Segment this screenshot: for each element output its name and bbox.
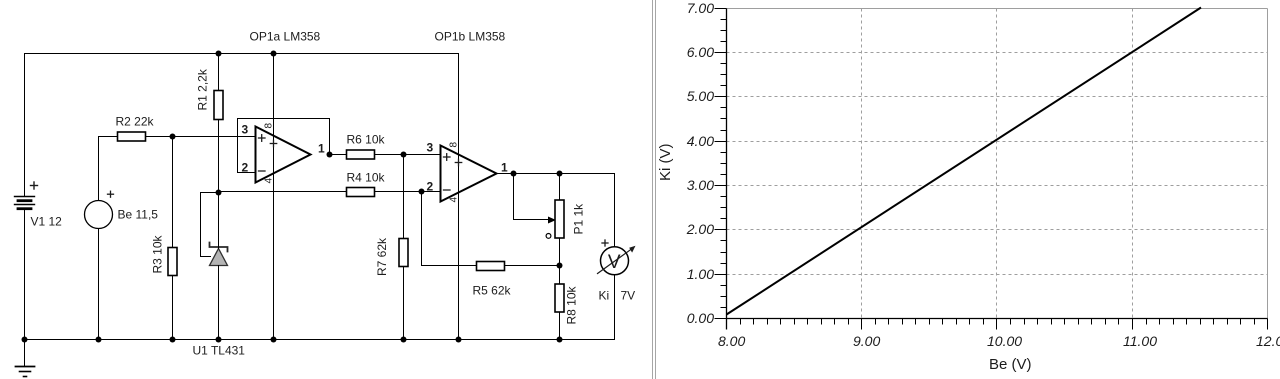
TL431 cathode bar xyxy=(210,243,228,252)
svg-text:3: 3 xyxy=(242,123,249,137)
node bottom rail / R7 xyxy=(401,337,407,343)
svg-text:R7 62k: R7 62k xyxy=(375,237,389,276)
wire wiper branch xyxy=(514,174,550,220)
wire pin2 node down xyxy=(421,192,423,266)
wire voltmeter bottom lead xyxy=(614,275,616,340)
node R4/R5/pin2 xyxy=(419,189,425,195)
svg-text:3.00: 3.00 xyxy=(687,177,714,193)
svg-text:8.00: 8.00 xyxy=(718,333,745,349)
wire TL431 node to R4 xyxy=(219,191,347,193)
voltmeter needle arrow xyxy=(598,246,636,274)
svg-text:7V: 7V xyxy=(621,289,636,303)
wire TL431 ref loop xyxy=(201,193,219,257)
wire bottom rail (ground net) xyxy=(25,339,615,341)
svg-text:0.00: 0.00 xyxy=(687,310,714,326)
svg-text:OP1b LM358: OP1b LM358 xyxy=(435,30,506,44)
wire OP1b output row xyxy=(497,173,615,175)
x tick labels xyxy=(718,333,1280,349)
wire Be column lower xyxy=(98,229,100,340)
node bottom rail / battery xyxy=(22,337,28,343)
wire R3 column lower xyxy=(172,276,174,340)
wire TL431 anode xyxy=(218,266,220,340)
svg-text:P1 1k: P1 1k xyxy=(572,203,586,235)
ground symbol xyxy=(16,340,35,377)
wire R1 bottom lead to TL431 node xyxy=(218,120,220,193)
svg-text:R2 22k: R2 22k xyxy=(116,115,155,129)
P1 terminal circle xyxy=(546,234,551,239)
wire P1 top lead xyxy=(559,174,561,201)
chart right border xyxy=(1267,9,1269,319)
P1 wiper arrowhead xyxy=(548,217,556,224)
OP1b minus input mark xyxy=(444,189,451,191)
wire voltmeter top lead xyxy=(614,174,616,248)
svg-text:3: 3 xyxy=(427,141,434,155)
node bottom rail / TL431 xyxy=(216,337,222,343)
node bottom rail / R8 xyxy=(557,337,563,343)
op-amp OP1b triangle xyxy=(441,146,497,202)
svg-text:2: 2 xyxy=(427,180,434,194)
wire node to OP1b pin2 xyxy=(422,191,441,193)
op-amp OP1a triangle xyxy=(256,127,311,183)
x axis line xyxy=(727,318,1268,320)
resistor R8 10k xyxy=(555,284,564,312)
node bottom rail / OP1b supply xyxy=(456,337,462,343)
svg-text:8: 8 xyxy=(449,142,460,148)
voltage source Be 11,5 xyxy=(85,201,113,229)
svg-text:U1 TL431: U1 TL431 xyxy=(193,344,246,358)
svg-text:V: V xyxy=(608,252,621,273)
svg-text:R4 10k: R4 10k xyxy=(347,171,386,185)
potentiometer P1 1k xyxy=(555,200,564,238)
horizontal gridlines xyxy=(727,53,1268,275)
svg-text:R1 2,2k: R1 2,2k xyxy=(196,68,210,110)
OP1a minus input mark xyxy=(259,170,266,172)
TL431 body U1 (triangle) xyxy=(210,249,228,266)
svg-text:12.00: 12.00 xyxy=(1256,333,1280,349)
battery plus mark xyxy=(31,182,38,189)
OP1b supply plus mark xyxy=(455,159,461,165)
wire OP1a supply column xyxy=(273,54,275,340)
svg-text:1.00: 1.00 xyxy=(687,266,714,282)
Be plus mark xyxy=(108,191,114,197)
svg-text:R8 10k: R8 10k xyxy=(565,285,579,324)
wire to R5 xyxy=(422,265,477,267)
svg-text:Be 11,5: Be 11,5 xyxy=(118,208,159,222)
svg-text:8: 8 xyxy=(264,123,275,129)
wire R4 to node xyxy=(375,191,422,193)
svg-text:6.00: 6.00 xyxy=(687,44,714,60)
svg-text:V1 12: V1 12 xyxy=(31,215,63,229)
node top rail / OP1a supply xyxy=(271,51,277,57)
resistor R3 10k xyxy=(168,248,177,276)
wire battery column upper xyxy=(24,54,26,197)
wire R3 column upper xyxy=(172,137,174,248)
node R6/R7/pin3 xyxy=(401,152,407,158)
resistor R5 62k xyxy=(477,262,505,271)
svg-text:10.00: 10.00 xyxy=(987,333,1022,349)
x axis ticks xyxy=(727,319,1268,330)
svg-text:Ki (V): Ki (V) xyxy=(657,143,674,181)
node bottom rail / Be xyxy=(96,337,102,343)
wire R8 top lead xyxy=(559,266,561,285)
svg-text:Be (V): Be (V) xyxy=(989,356,1032,373)
voltmeter plus mark xyxy=(602,240,608,246)
wire battery column lower xyxy=(24,210,26,340)
node R2/R3/pin3 xyxy=(170,134,176,140)
wire top rail V+ xyxy=(25,53,459,55)
voltmeter Ki body xyxy=(601,247,629,275)
wire R1 top lead xyxy=(218,54,220,91)
chart top border xyxy=(727,8,1268,10)
svg-text:1: 1 xyxy=(501,161,508,175)
resistor R1 2,2k xyxy=(214,91,223,120)
node OP1a output xyxy=(327,152,333,158)
wire R7 bottom lead xyxy=(403,267,405,340)
wire R5 to P1 bottom node xyxy=(505,265,560,267)
resistor R4 10k xyxy=(347,188,375,197)
y axis ticks xyxy=(715,9,727,319)
y tick labels xyxy=(686,0,714,326)
resistor R6 10k xyxy=(347,150,375,159)
resistor R2 22k xyxy=(118,132,146,141)
wire OP1a out to R6 xyxy=(330,154,347,156)
svg-text:4: 4 xyxy=(264,178,275,184)
trace Ki vs Be xyxy=(727,8,1202,315)
wire node to OP1b pin3 xyxy=(404,154,441,156)
battery V1 12 xyxy=(15,197,35,209)
svg-text:Ki: Ki xyxy=(599,289,610,303)
wire Be to R2 xyxy=(99,136,118,138)
wire TL431 cathode xyxy=(218,193,220,249)
resistor R7 62k xyxy=(399,239,408,267)
wire R2 to node xyxy=(146,136,173,138)
svg-text:2: 2 xyxy=(242,161,249,175)
OP1b plus input mark xyxy=(444,154,451,161)
svg-text:5.00: 5.00 xyxy=(687,88,714,104)
svg-text:4: 4 xyxy=(449,197,460,203)
vertical gridlines xyxy=(862,9,1133,319)
svg-text:9.00: 9.00 xyxy=(853,333,880,349)
node bottom rail / R3 xyxy=(170,337,176,343)
wire R6 to node xyxy=(375,154,404,156)
y axis line xyxy=(726,9,728,330)
svg-text:R5 62k: R5 62k xyxy=(473,284,512,298)
wire OP1b supply column xyxy=(458,54,460,340)
panel divider xyxy=(653,0,656,379)
node output / P1 top xyxy=(557,171,563,177)
op-amp OP1a feedback box xyxy=(238,119,330,173)
node R1/TL431/R4 xyxy=(216,190,222,196)
svg-text:7.00: 7.00 xyxy=(687,0,714,16)
wire R7 top lead xyxy=(403,155,405,239)
OP1a supply plus mark xyxy=(270,140,276,146)
OP1a plus input mark xyxy=(259,135,266,142)
node P1/R5/R8 xyxy=(557,263,563,269)
svg-text:R3 10k: R3 10k xyxy=(151,234,165,273)
svg-text:11.00: 11.00 xyxy=(1123,333,1157,349)
wire R8 bottom lead xyxy=(559,312,561,340)
node top rail / R1 xyxy=(216,51,222,57)
wire node to OP1a pin3 xyxy=(173,136,256,138)
svg-text:R6 10k: R6 10k xyxy=(347,133,386,147)
node bottom rail / OP1a supply xyxy=(271,337,277,343)
svg-text:1: 1 xyxy=(318,142,325,156)
node output / wiper branch xyxy=(511,171,517,177)
wire P1 bottom lead xyxy=(559,238,561,266)
svg-text:2.00: 2.00 xyxy=(686,221,714,237)
svg-text:4.00: 4.00 xyxy=(687,133,714,149)
svg-text:OP1a LM358: OP1a LM358 xyxy=(250,30,321,44)
wire Be column upper xyxy=(98,137,100,201)
